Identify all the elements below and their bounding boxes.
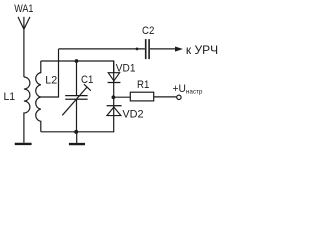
svg-text:R1: R1 [137,80,150,92]
svg-text:WA1: WA1 [14,3,34,15]
svg-text:VD2: VD2 [122,108,143,120]
svg-text:L1: L1 [4,91,16,103]
svg-text:L2: L2 [45,74,57,86]
svg-text:C2: C2 [142,26,155,38]
svg-text:к УРЧ: к УРЧ [186,43,218,57]
svg-text:VD1: VD1 [116,62,136,74]
svg-text:C1: C1 [81,75,94,87]
